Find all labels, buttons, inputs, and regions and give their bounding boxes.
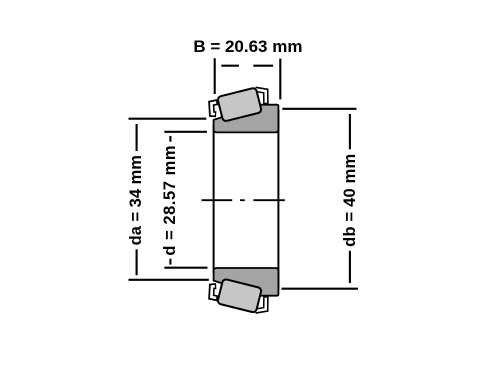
svg-text:db = 40 mm: db = 40 mm <box>341 154 359 247</box>
svg-text:B = 20.63 mm: B = 20.63 mm <box>193 37 302 56</box>
svg-text:d = 28.57 mm: d = 28.57 mm <box>161 145 179 256</box>
svg-text:da = 34 mm: da = 34 mm <box>127 155 145 245</box>
